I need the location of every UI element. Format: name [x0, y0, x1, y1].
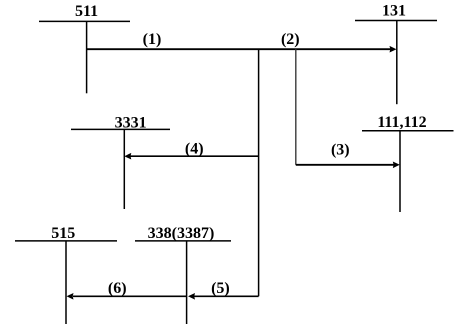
node 515 header line: [15, 240, 117, 242]
arrowhead at 111,112: [393, 162, 400, 169]
arrowhead at 515: [67, 293, 74, 300]
node 3331 header line: [71, 128, 170, 130]
svg-text:515: 515: [51, 225, 75, 242]
svg-text:111,112: 111,112: [377, 114, 426, 131]
node 131 header line: [355, 20, 437, 22]
node 338(3387) header line: [135, 240, 231, 242]
wire arrow (5) segment from central vertical to 338: [194, 295, 259, 297]
wire arrow (4) to 3331: [130, 155, 259, 157]
svg-text:131: 131: [382, 3, 406, 20]
svg-text:(4): (4): [185, 141, 204, 158]
wire arrow (1)(2) from 511 to 131: [87, 48, 391, 50]
node 3331 drop line: [123, 129, 125, 209]
svg-text:(5): (5): [211, 280, 230, 297]
node 511 drop line: [86, 21, 88, 93]
svg-text:511: 511: [75, 3, 98, 20]
node 111,112 drop line: [399, 131, 401, 212]
node 111,112 header line: [362, 130, 454, 132]
wire vertical branch under (2): [295, 49, 297, 165]
node 511 header line: [39, 20, 130, 22]
node 131 drop line: [396, 21, 398, 105]
svg-text:(2): (2): [281, 31, 300, 48]
wire central vertical from (1)(2) line: [258, 49, 260, 296]
svg-text:(6): (6): [108, 280, 127, 297]
svg-text:338(3387): 338(3387): [148, 225, 215, 242]
wire arrow (6) segment from 338 to 515: [73, 295, 187, 297]
svg-text:(1): (1): [143, 31, 162, 48]
svg-text:(3): (3): [331, 142, 350, 159]
wire arrow (3) to 111,112: [296, 164, 394, 166]
node 515 drop line: [65, 241, 67, 324]
arrowhead at 3331: [124, 153, 131, 160]
node 338(3387) drop line: [186, 241, 188, 324]
arrowhead at 131: [390, 46, 397, 53]
arrowhead at 338: [188, 293, 195, 300]
